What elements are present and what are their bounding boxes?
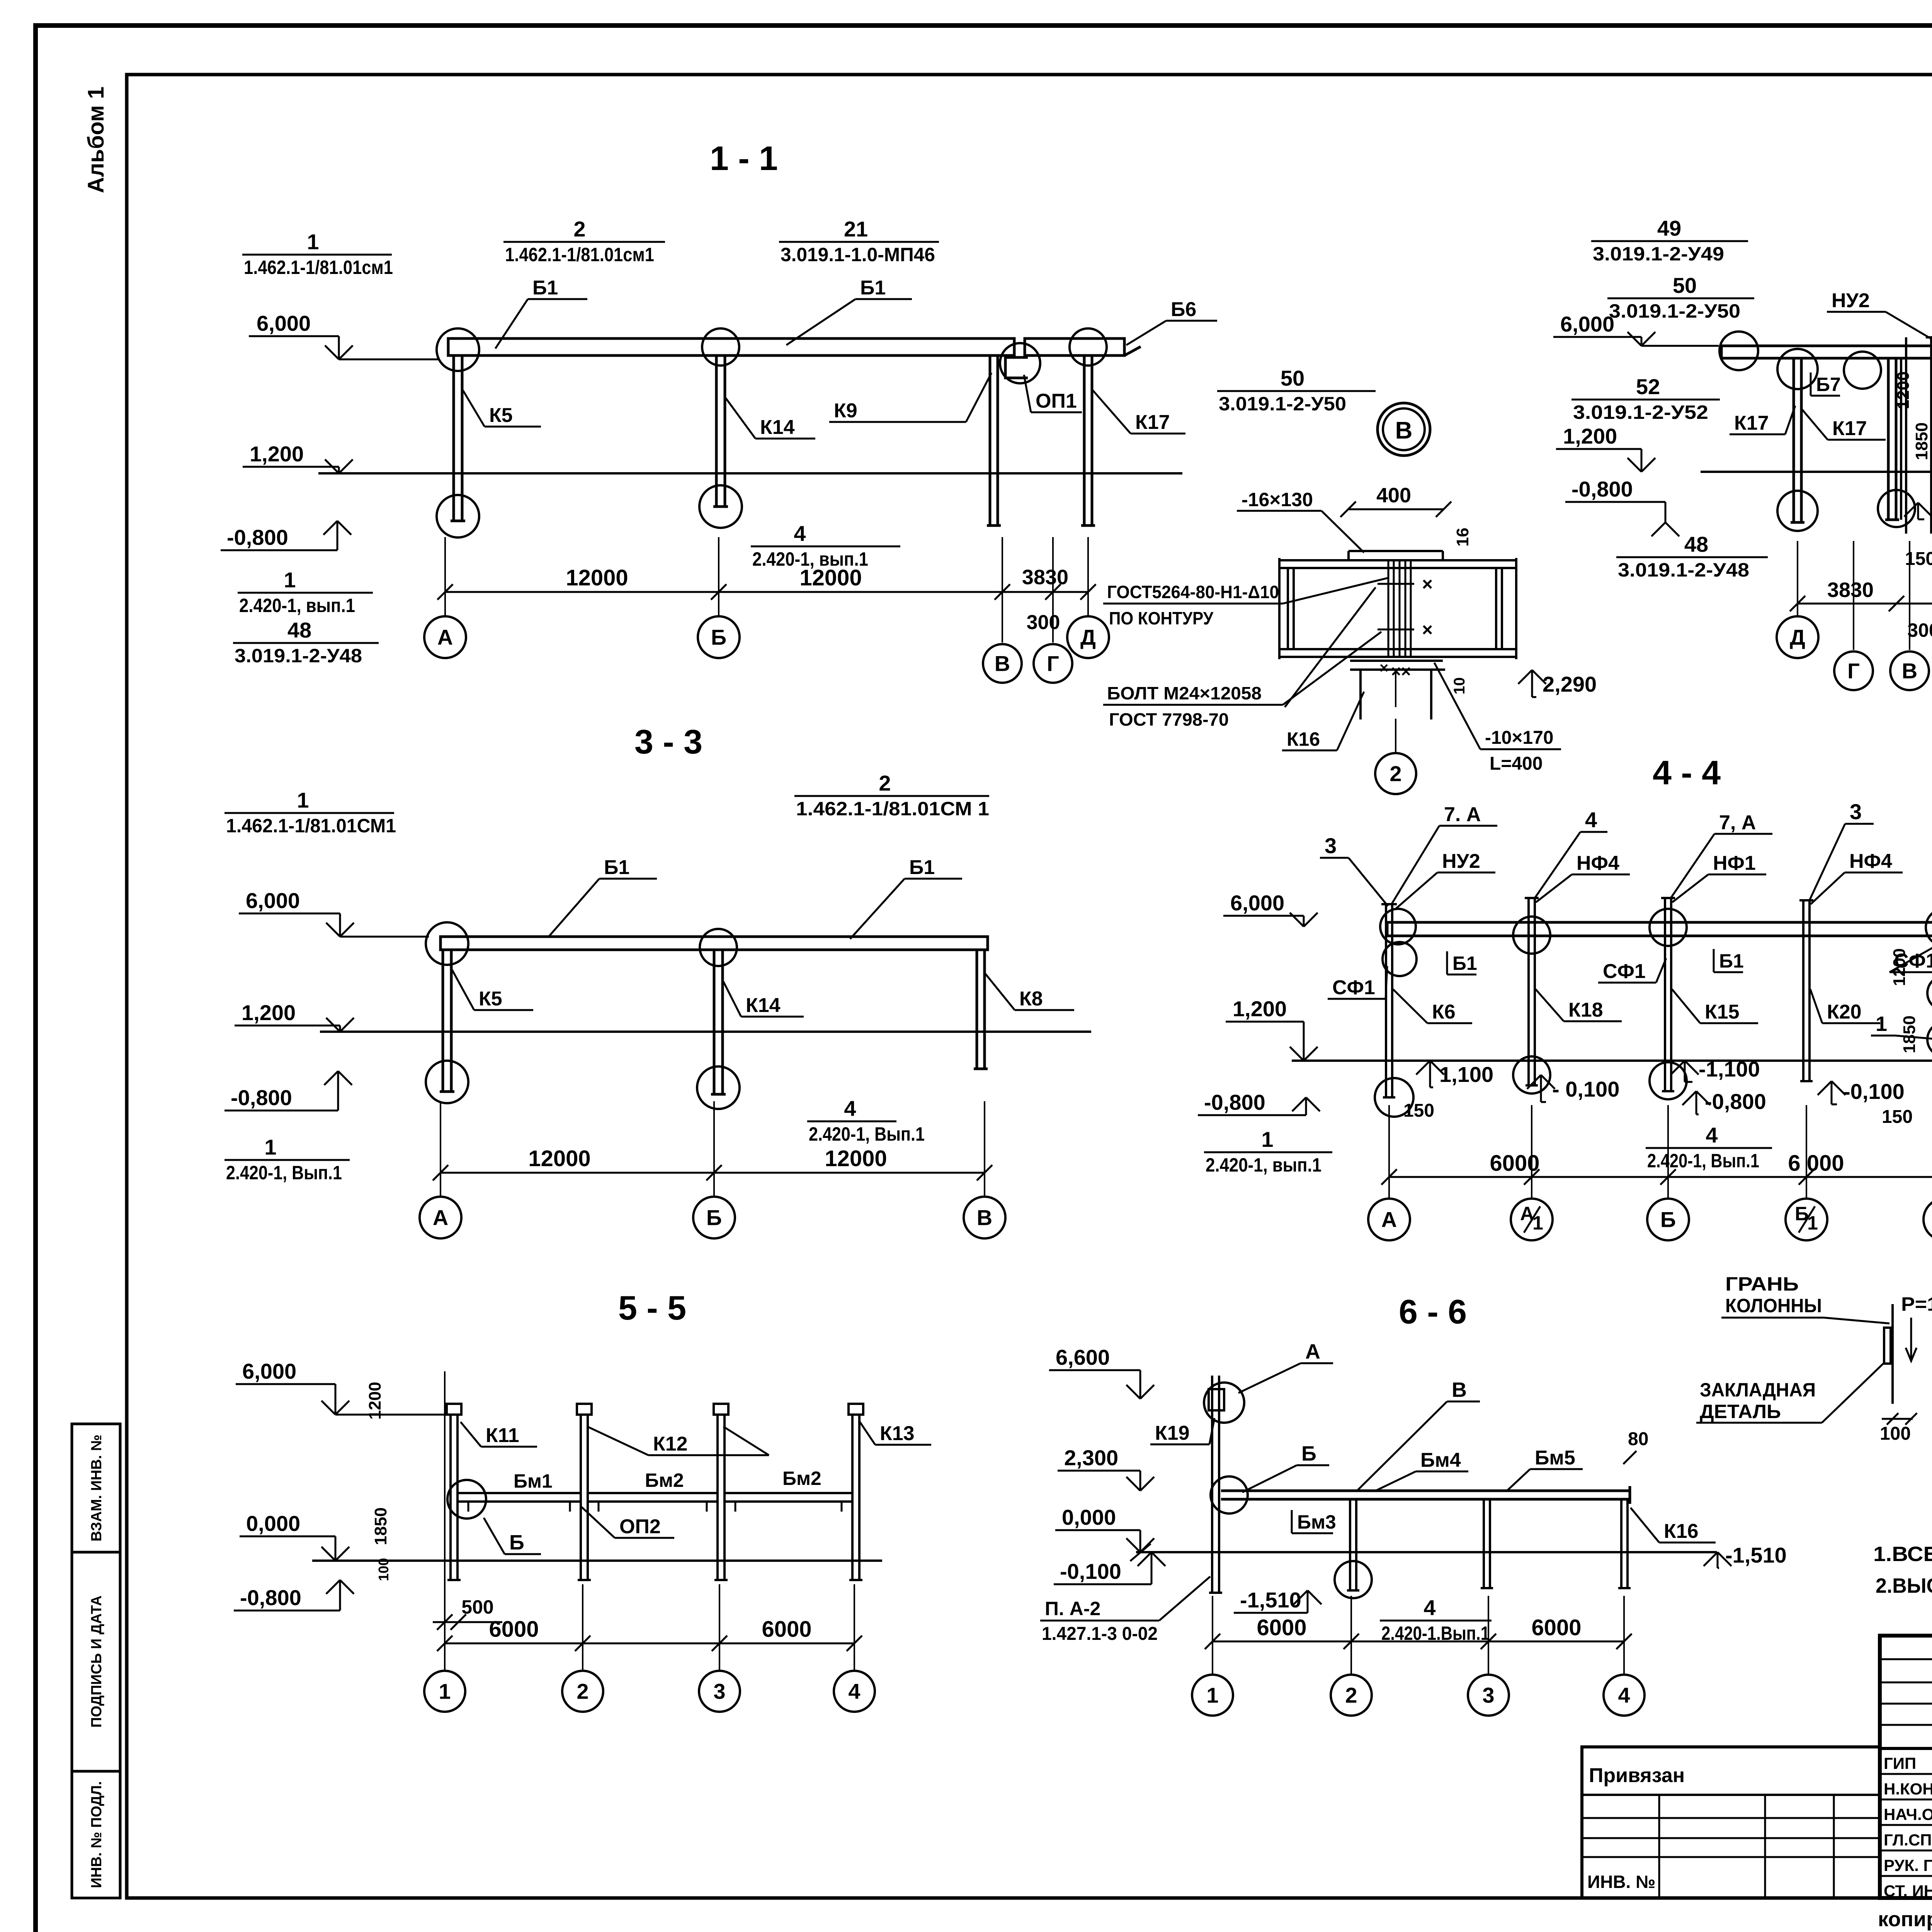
level 1.200 view 1-1 [243,466,339,468]
svg-text:3.019.1-1.0-МП46: 3.019.1-1.0-МП46 [781,244,935,265]
svg-text:ДЕТАЛЬ: ДЕТАЛЬ [1700,1401,1781,1422]
beam end stiffeners detail V [1287,568,1289,649]
svg-text:Б: Б [509,1531,524,1554]
svg-text:В: В [995,651,1010,676]
svg-text:12000: 12000 [825,1146,887,1171]
svg-text:6,000: 6,000 [257,311,311,335]
svg-text:Б1: Б1 [532,277,558,299]
dimension line 1-1 [445,591,1088,593]
beam view 4-4 [1387,922,1932,936]
svg-text:3.019.1-2-У50: 3.019.1-2-У50 [1609,300,1740,322]
svg-text:2.420-1, вып.1: 2.420-1, вып.1 [1206,1154,1321,1176]
level -0.800 4-4 [1292,1097,1306,1111]
svg-text:КОЛОННЫ: КОЛОННЫ [1725,1295,1822,1316]
svg-text:6000: 6000 [489,1617,539,1642]
level 6.000 4-4 [1223,915,1304,917]
axis circle B/1 4-4 [1786,1199,1827,1240]
beam BB right segment [1025,338,1124,355]
level 6.000 5-5 [236,1383,335,1385]
svg-text:12000: 12000 [799,565,862,590]
level 1.200 view 3-3 [235,1025,340,1027]
joint circles 1-1 [437,328,479,371]
svg-text:1.ВСЕ НЕОГОВОРЕННЫЕ УЗЛЫ ПРИНЯ: 1.ВСЕ НЕОГОВОРЕННЫЕ УЗЛЫ ПРИНЯТЫ ПО СЕРИ… [1873,1543,1932,1566]
svg-text:В: В [977,1206,992,1230]
axis circle A 4-4 [1368,1199,1410,1240]
svg-text:1,200: 1,200 [1233,997,1287,1021]
svg-text:копировал: копировал [1878,1908,1932,1931]
svg-text:-0,100: -0,100 [1060,1559,1121,1583]
svg-text:50: 50 [1281,366,1304,390]
column 5-5 at x1175 [449,1414,452,1580]
svg-text:4 - 4: 4 - 4 [1653,753,1721,792]
axis circle B 4-4 [1647,1199,1689,1240]
svg-text:-16×130: -16×130 [1242,489,1313,510]
bolts detail V [1378,583,1414,585]
posts 6-6 [1349,1499,1351,1590]
svg-text:ПОДПИСЬ И ДАТА: ПОДПИСЬ И ДАТА [88,1595,105,1728]
svg-text:Привязан: Привязан [1589,1764,1685,1787]
svg-text:1.427.1-3 0-02: 1.427.1-3 0-02 [1042,1624,1158,1644]
svg-text:6 - 6: 6 - 6 [1399,1293,1467,1331]
axis circle V 4-4 [1923,1199,1932,1240]
svg-text:6000: 6000 [1257,1615,1306,1640]
level -0.800 5-5 [326,1580,340,1594]
post NU2 4-4 [1385,904,1387,1097]
left margin box Vzam inv no [72,1424,120,1552]
svg-text:1.462.1-1/81.01см1: 1.462.1-1/81.01см1 [244,257,393,278]
svg-text:Н.КОНТР.: Н.КОНТР. [1884,1780,1932,1798]
level -0.100 a 4-4 [1527,1075,1541,1089]
svg-text:Г: Г [1047,651,1059,676]
axis circle A [424,616,466,658]
column 5-5 at x2215 [851,1414,854,1580]
svg-text:К5: К5 [489,404,513,427]
svg-text:××: ×× [1391,662,1411,681]
svg-text:3.019.1-2-У48: 3.019.1-2-У48 [235,645,362,667]
svg-text:НАЧ.ОТД.: НАЧ.ОТД. [1884,1805,1932,1823]
svg-text:Б: Б [706,1206,722,1230]
svg-text:2.420-1, вып.1: 2.420-1, вып.1 [239,595,355,616]
svg-text:А: А [433,1206,448,1230]
post NF4a 4-4 [1527,898,1530,1085]
svg-text:1: 1 [1261,1127,1273,1151]
joint circle at beam left end [1719,332,1758,370]
level 1.200 4-4 [1226,1021,1304,1023]
svg-text:150: 150 [1403,1100,1434,1121]
svg-text:СФ1: СФ1 [1332,976,1375,999]
svg-text:52: 52 [1636,374,1660,399]
level 2.290 detail V [1518,670,1532,684]
svg-text:К8: К8 [1019,988,1043,1010]
bottom plate detail V [1350,660,1443,662]
svg-text:21: 21 [844,217,868,241]
svg-text:-0,800: -0,800 [240,1585,301,1610]
svg-text:Б6: Б6 [1171,298,1196,321]
svg-text:1,200: 1,200 [241,1000,296,1025]
svg-text:1850: 1850 [1900,1015,1919,1053]
svg-text:7, А: 7, А [1719,811,1756,834]
level 6.000 left 2-2 [1553,336,1641,338]
svg-text:Б: Б [711,625,726,650]
svg-text:12000: 12000 [528,1146,590,1171]
svg-text:Д: Д [1790,625,1805,650]
svg-text:ПО КОНТУРУ: ПО КОНТУРУ [1109,608,1214,628]
axis lines 5-5 [444,1371,446,1670]
level -0.800 b 4-4 [1682,1091,1696,1105]
svg-text:6000: 6000 [762,1617,811,1642]
svg-text:4: 4 [1706,1123,1718,1147]
svg-text:100: 100 [376,1558,391,1581]
svg-text:ИНВ. №: ИНВ. № [1587,1872,1655,1892]
svg-text:4: 4 [844,1096,856,1121]
post NU2 at axis G/V [1930,337,1932,534]
svg-text:1: 1 [284,568,296,592]
svg-text:2,300: 2,300 [1064,1446,1118,1470]
svg-text:-0,800: -0,800 [227,525,288,549]
column K8 view 3-3 [976,950,978,1069]
column K14 view 3-3 [713,950,716,1094]
axis circle B [698,616,740,658]
title block left revision rows [1880,1658,1932,1660]
svg-text:1: 1 [297,788,309,812]
title block signature rows [1880,1773,1932,1775]
svg-text:6,600: 6,600 [1056,1345,1110,1369]
svg-text:К9: К9 [834,400,857,422]
svg-text:500: 500 [461,1596,493,1618]
svg-text:К15: К15 [1705,1001,1740,1023]
column below detail V [1359,670,1362,719]
axis lines 4-4 [1388,1105,1390,1199]
svg-text:К16: К16 [1287,728,1320,750]
svg-text:1.462.1-1/81.01СМ1: 1.462.1-1/81.01СМ1 [226,815,396,837]
svg-text:×: × [1422,620,1433,640]
svg-text:В: В [1395,417,1413,444]
dimension line 6-6 [1213,1641,1624,1643]
svg-text:-0,100: -0,100 [1843,1079,1905,1104]
svg-text:Альбом 1: Альбом 1 [83,87,109,193]
dim 100 gran [1882,1418,1913,1420]
level 1.100 4-4 [1416,1061,1430,1075]
beam flanges detail V [1279,559,1516,561]
column K9 view 1-1 [989,355,992,526]
svg-text:РУК. ГР.: РУК. ГР. [1884,1856,1932,1874]
svg-text:4: 4 [1423,1595,1435,1620]
svg-text:П. А-2: П. А-2 [1045,1598,1100,1619]
svg-text:К14: К14 [760,416,795,439]
svg-text:1,100: 1,100 [1439,1062,1493,1087]
joint circle B 5-5 [447,1480,486,1519]
svg-text:3.019.1-2-У52: 3.019.1-2-У52 [1573,401,1708,423]
svg-text:СФ1: СФ1 [1894,950,1932,972]
svg-text:ГИП: ГИП [1884,1754,1916,1772]
column face line [1891,1304,1894,1404]
svg-text:2: 2 [879,771,891,795]
svg-text:1200: 1200 [366,1382,384,1420]
svg-text:ОП1: ОП1 [1036,390,1077,412]
svg-text:100: 100 [1880,1423,1911,1444]
svg-text:48: 48 [287,618,311,642]
svg-text:1: 1 [1876,1012,1887,1036]
svg-text:ГОСТ 7798-70: ГОСТ 7798-70 [1109,709,1229,730]
axis circle V 2-2 [1890,651,1929,690]
axis circle G [1034,644,1072,683]
detail marker circle V [1378,403,1430,456]
dimension line 5-5 [445,1643,854,1645]
svg-text:×: × [1422,574,1433,595]
axis lines 6-6 [1212,1596,1213,1675]
level 0.000 6-6 [1055,1529,1140,1531]
svg-text:ИНВ. № ПОДЛ.: ИНВ. № ПОДЛ. [88,1781,105,1888]
svg-text:6,000: 6,000 [1560,312,1614,336]
svg-text:3 - 3: 3 - 3 [634,723,702,761]
level -0.100 a 2-2 [1904,503,1918,517]
floor level line stepped view 2-2 [1701,471,1932,473]
svg-text:Б1: Б1 [604,856,629,879]
svg-text:2.ВЫСОТА СВАРНОГО ШВА (12ММ) -: 2.ВЫСОТА СВАРНОГО ШВА (12ММ) - ДЛЯ КОЛОН… [1876,1574,1932,1597]
svg-text:-0,800: -0,800 [1204,1090,1265,1114]
svg-text:ЗАКЛАДНАЯ: ЗАКЛАДНАЯ [1700,1379,1816,1401]
svg-text:К6: К6 [1432,1001,1456,1023]
svg-text:6,000: 6,000 [1230,891,1284,915]
beams BM 5-5 [457,1492,581,1494]
dimension line 2-2 [1798,603,1932,605]
svg-text:СТ. ИНЖ.: СТ. ИНЖ. [1884,1882,1932,1900]
dim 400 detail V [1348,509,1444,510]
mid level line 1.200 view 1-1 [318,472,1182,474]
svg-text:2: 2 [573,217,585,241]
axis lines 2-2 [1797,541,1798,616]
axis circle D 2-2 [1777,616,1818,658]
svg-text:7. А: 7. А [1444,803,1481,826]
svg-text:4: 4 [794,521,806,546]
column K5 view 1-1 [452,355,455,521]
post NF4b 4-4 [1802,900,1804,1081]
svg-text:L=400: L=400 [1490,753,1543,774]
svg-text:10: 10 [1451,677,1468,695]
column 5-5 at x1512 [580,1414,582,1580]
svg-text:Бм4: Бм4 [1420,1449,1461,1471]
level -1.100 4-4 [1671,1061,1685,1075]
beam top chord view 2-2 [1721,346,1932,358]
svg-text:1: 1 [1206,1683,1218,1708]
svg-text:4: 4 [848,1679,860,1704]
svg-text:-1,510: -1,510 [1725,1543,1787,1567]
svg-text:Б: Б [1660,1207,1676,1232]
svg-text:В: В [1452,1378,1467,1401]
svg-text:К5: К5 [479,988,502,1010]
level -1.510 a 6-6 [1294,1590,1308,1604]
axis circle B 3-3 [693,1197,735,1238]
svg-text:3830: 3830 [1022,566,1068,589]
svg-text:2: 2 [577,1679,588,1704]
svg-text:-0,800: -0,800 [1571,477,1633,501]
svg-text:Б1: Б1 [909,856,935,879]
svg-text:3830: 3830 [1827,578,1874,602]
svg-text:Б1: Б1 [1452,952,1477,974]
svg-text:48: 48 [1684,532,1708,556]
svg-text:А: А [1381,1207,1397,1232]
bracket OP1 under beam joint [1005,357,1028,378]
joint circle left 6-6 [1211,1476,1248,1514]
mid level line 4-4 [1292,1060,1932,1062]
beam 6-6 [1221,1490,1630,1492]
mid line 0.000 5-5 [312,1560,882,1562]
svg-text:0,000: 0,000 [246,1511,300,1536]
column K19 6-6 [1211,1376,1213,1593]
svg-text:1,200: 1,200 [250,442,304,466]
svg-text:16: 16 [1453,528,1472,547]
svg-text:3: 3 [713,1679,725,1704]
svg-text:6000: 6000 [1531,1615,1581,1640]
svg-text:3.019.1-2-У50: 3.019.1-2-У50 [1219,393,1346,415]
svg-text:150: 150 [1882,1107,1913,1127]
column K5 view 3-3 [442,950,444,1092]
column K17 view 1-1 [1083,355,1086,526]
svg-text:Бм5: Бм5 [1535,1447,1575,1469]
svg-text:Р=18,0тн: Р=18,0тн [1901,1293,1932,1315]
mid level line view 3-3 [320,1031,1091,1033]
svg-text:БОЛТ М24×12058: БОЛТ М24×12058 [1107,683,1262,703]
svg-text:1: 1 [439,1679,451,1704]
svg-text:К17: К17 [1734,412,1769,434]
splice verticals detail V [1388,560,1389,657]
svg-text:Б1: Б1 [1719,950,1744,972]
column K17 at D axis [1793,358,1795,522]
level -0.800 left 2-2 [1651,522,1665,536]
svg-text:6 000: 6 000 [1788,1151,1844,1176]
svg-text:Бм3: Бм3 [1297,1511,1336,1533]
axis circle A 3-3 [420,1197,461,1238]
svg-text:А: А [1305,1340,1320,1363]
level 2.300 6-6 [1058,1470,1140,1472]
mid line 6-6 [1136,1551,1717,1553]
svg-text:3.019.1-2-У48: 3.019.1-2-У48 [1618,559,1749,581]
axis circle V 3-3 [964,1197,1005,1238]
svg-text:2.420-1, Вып.1: 2.420-1, Вып.1 [809,1123,925,1145]
svg-text:К17: К17 [1135,411,1170,434]
left margin box Inv no podl [72,1771,120,1898]
axis circle 2 detail V [1395,719,1396,753]
axis circles 5-5 [424,1671,465,1712]
svg-text:- 0,100: - 0,100 [1552,1077,1619,1101]
svg-text:К13: К13 [880,1422,915,1445]
level -0.800 view 3-3 [324,1071,338,1085]
svg-text:300: 300 [1907,619,1932,641]
svg-text:2: 2 [1345,1683,1357,1708]
svg-text:49: 49 [1657,216,1681,240]
svg-text:1,200: 1,200 [1563,424,1617,448]
svg-text:Г: Г [1847,659,1860,683]
left margin box Podpis i data [72,1552,120,1771]
beam B1 view 1-1 [448,338,1014,355]
column 5-5 at x1866 [716,1414,719,1580]
svg-text:К17: К17 [1832,417,1867,440]
svg-text:СФ1: СФ1 [1603,960,1646,983]
svg-text:-1,510: -1,510 [1240,1588,1301,1612]
svg-text:К18: К18 [1568,999,1603,1021]
svg-text:-1,100: -1,100 [1699,1057,1760,1081]
svg-text:-0,800: -0,800 [1705,1089,1766,1114]
svg-text:В: В [1902,659,1917,683]
beam B1 view 3-3 [440,937,988,950]
svg-text:400: 400 [1376,484,1411,507]
svg-text:К12: К12 [653,1433,688,1455]
svg-text:Бм1: Бм1 [514,1470,553,1492]
axis lines 1-1 [444,537,446,616]
svg-text:К16: К16 [1664,1520,1699,1543]
svg-text:6,000: 6,000 [242,1359,296,1383]
axis circle A/1 4-4 [1511,1199,1553,1240]
svg-text:4: 4 [1585,808,1597,832]
svg-text:НФ1: НФ1 [1713,852,1756,874]
svg-text:ГРАНЬ: ГРАНЬ [1725,1273,1799,1295]
svg-text:ОП2: ОП2 [619,1515,661,1538]
svg-text:К11: К11 [486,1424,519,1447]
axis lines 3-3 [440,1101,441,1197]
title block outer frame [1880,1636,1932,1898]
dimension line 3-3 [440,1172,985,1174]
svg-text:80: 80 [1628,1429,1648,1449]
svg-text:12000: 12000 [566,565,628,590]
svg-text:-0,100: -0,100 [1930,494,1932,519]
column K14 view 1-1 [715,355,718,507]
svg-text:ГОСТ5264-80-Н1-Δ10: ГОСТ5264-80-Н1-Δ10 [1107,582,1279,602]
svg-text:Б: Б [1301,1442,1316,1465]
svg-text:0,000: 0,000 [1062,1505,1116,1529]
svg-text:НУ2: НУ2 [1442,850,1480,872]
svg-text:НФ4: НФ4 [1577,852,1619,874]
top cover plate detail V [1349,550,1443,552]
axis circle V [983,644,1022,683]
svg-text:×: × [1379,660,1388,677]
dimension line 4-4 [1389,1176,1932,1178]
embed plate [1884,1328,1891,1364]
svg-text:-10×170: -10×170 [1485,728,1554,748]
svg-text:50: 50 [1673,273,1697,298]
level -0.100 b 4-4 [1818,1081,1832,1095]
svg-text:Бм2: Бм2 [782,1468,821,1489]
svg-text:300: 300 [1027,611,1060,634]
svg-text:ГЛ.СПЕЦ.: ГЛ.СПЕЦ. [1884,1831,1932,1849]
svg-text:К19: К19 [1155,1422,1190,1444]
axis circles 6-6 [1192,1675,1233,1716]
svg-text:5 - 5: 5 - 5 [618,1289,686,1327]
joint circles 3-3 [426,922,468,965]
svg-text:2,290: 2,290 [1543,672,1597,696]
svg-text:НУ2: НУ2 [1832,289,1870,312]
svg-text:3.019.1-2-У49: 3.019.1-2-У49 [1593,243,1724,265]
svg-text:-0,800: -0,800 [231,1085,292,1110]
svg-text:Бм2: Бм2 [645,1469,684,1491]
svg-text:К14: К14 [746,994,781,1017]
level -0.800 view 1-1 [323,521,337,535]
svg-text:Д: Д [1080,625,1096,650]
svg-text:1850: 1850 [371,1507,390,1545]
level 0.000 5-5 [240,1536,335,1537]
svg-text:3: 3 [1850,799,1862,824]
svg-text:1: 1 [307,230,319,254]
column K10 twin [1900,357,1902,520]
level 6.000 view 1-1 [249,335,339,337]
svg-text:3: 3 [1482,1683,1494,1708]
svg-text:6,000: 6,000 [246,888,300,913]
svg-text:2: 2 [1389,762,1401,786]
column at G axis [1887,357,1890,520]
svg-text:ВЗАМ. ИНВ. №: ВЗАМ. ИНВ. № [88,1435,105,1542]
svg-text:1200: 1200 [1894,371,1913,409]
svg-text:А: А [437,625,453,650]
axis circle D [1067,616,1109,658]
